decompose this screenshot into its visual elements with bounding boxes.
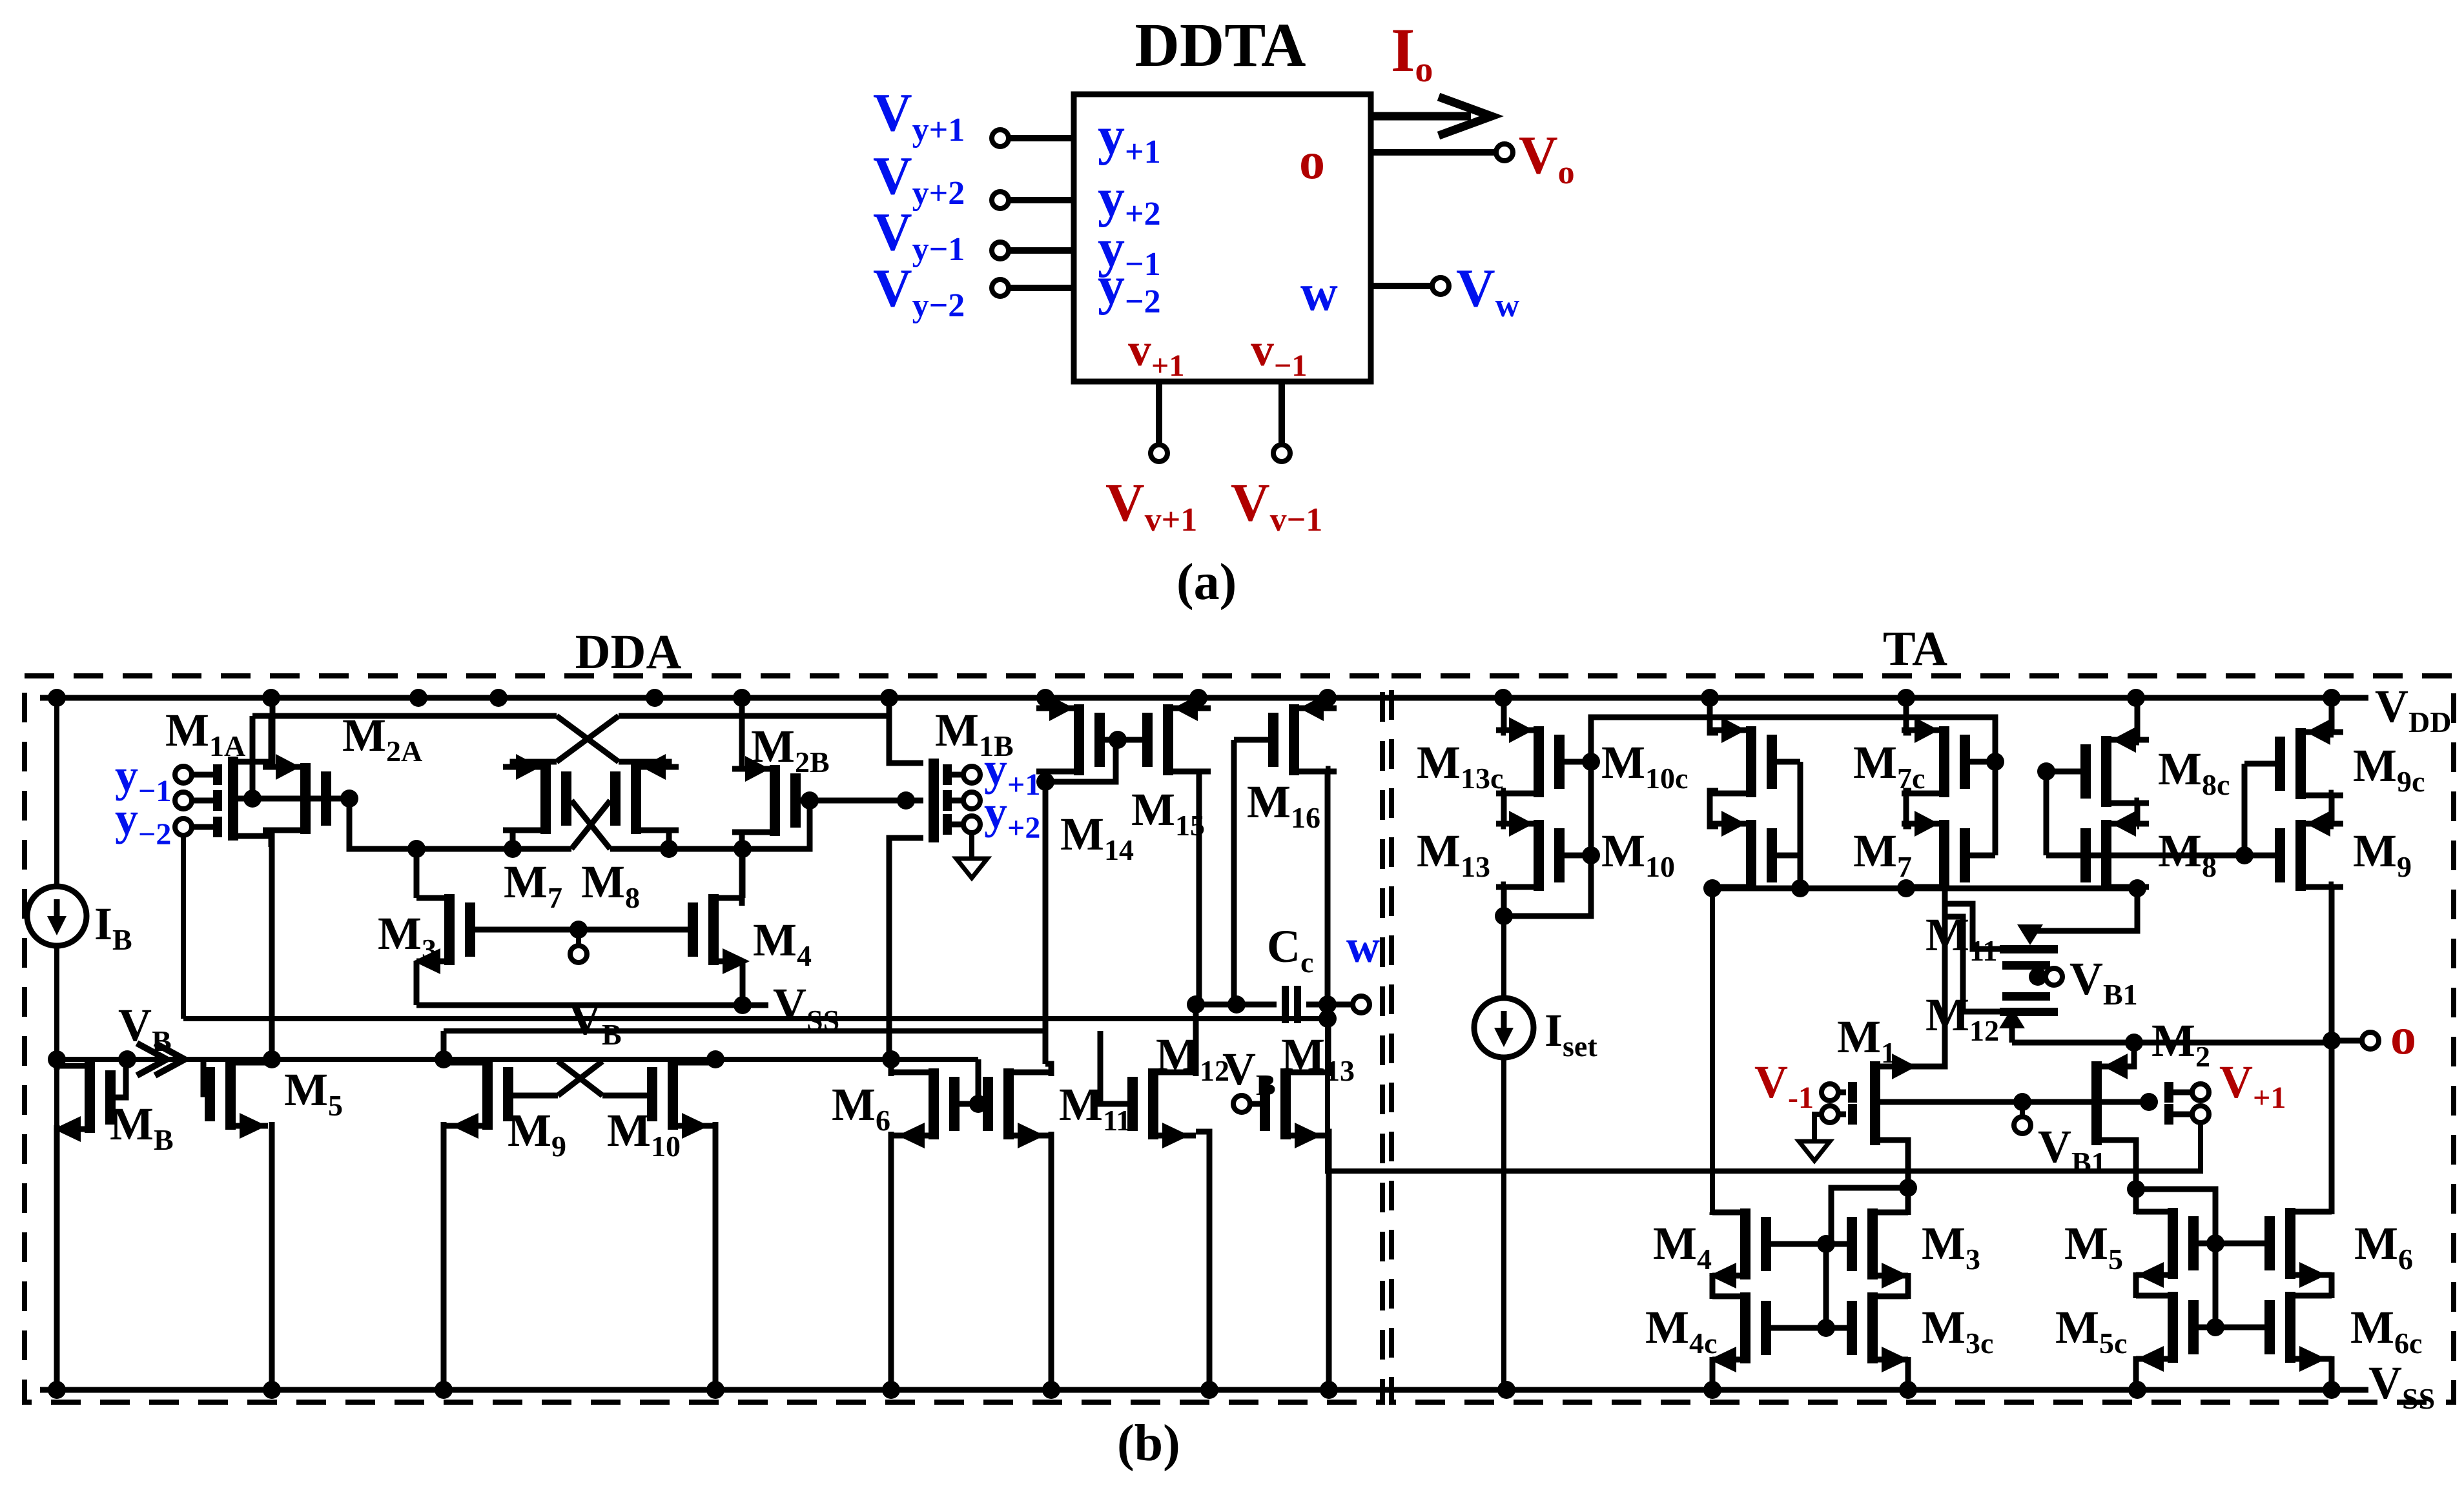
inner VSS rail xyxy=(416,1003,768,1008)
node w terminal xyxy=(1328,1002,1352,1008)
transistor M8 xyxy=(631,763,641,834)
transistor M12 of TA rotated xyxy=(2002,992,2050,1001)
transistor M9c xyxy=(2295,728,2306,799)
transistor M13 of DDA xyxy=(1280,1068,1291,1139)
ground at M1 lower gate xyxy=(1814,1114,1822,1123)
M1B bottom stub to M6 drain xyxy=(889,838,923,1061)
transistor M1A dual-gate input xyxy=(228,757,238,841)
M10 drain vertical to M4 drain xyxy=(1710,888,1715,1212)
transistor M8 of TA xyxy=(2101,820,2111,891)
transistor M1 of TA dual gate xyxy=(1870,1061,1880,1145)
transistor M12 xyxy=(1148,1068,1158,1139)
transistor M7 xyxy=(540,763,551,834)
transistor M5 xyxy=(225,1059,236,1130)
M14 drain vertical to M11 drain xyxy=(1043,782,1049,1064)
block DDTA xyxy=(1074,94,1371,382)
feedback wire from w to M1A third gate xyxy=(181,835,186,1019)
M13 gate bus diode tie xyxy=(1504,762,1591,916)
M1 bottom stub to tail xyxy=(1880,1140,1908,1188)
transistor M3 of TA xyxy=(1867,1208,1878,1279)
M11 M12 feed wires xyxy=(2030,888,2137,931)
transistor M11 of TA rotated xyxy=(2000,945,2058,953)
dashed box DDA xyxy=(25,676,1382,1402)
M3 diode tie to tail node xyxy=(1831,1188,1908,1244)
transistor M16 xyxy=(1289,704,1299,775)
current source I_B xyxy=(54,698,59,886)
transistor M5c xyxy=(2168,1292,2178,1363)
M8c gate vertical xyxy=(2044,771,2049,855)
transistor M10 xyxy=(668,1059,678,1130)
svg-text:w: w xyxy=(1346,921,1380,972)
svg-text:o: o xyxy=(1299,133,1325,190)
transistor MB xyxy=(85,1062,95,1133)
svg-text:o: o xyxy=(2390,1008,2416,1065)
transistor M2B xyxy=(770,765,780,836)
transistor M9 of TA xyxy=(2295,820,2306,891)
M1B top stub xyxy=(889,716,923,763)
M2 bottom stub to tail xyxy=(2102,1140,2136,1189)
output terminal V_o xyxy=(1373,149,1495,156)
M1A bottom stub xyxy=(238,836,271,847)
M1A drain tap wire xyxy=(238,796,349,802)
transistor M6c xyxy=(2285,1292,2295,1363)
second rail wire with cross xyxy=(252,713,557,719)
transistor M2 of TA dual gate xyxy=(2091,1061,2102,1145)
transistor M14 xyxy=(1074,704,1084,775)
input terminal V-1 xyxy=(1822,1084,1838,1101)
svg-text:w: w xyxy=(1300,265,1338,321)
cross-over X of M7 M8 gates xyxy=(571,800,610,849)
cross-over X top xyxy=(557,716,619,762)
M14 diode tie xyxy=(1045,740,1116,782)
second stage output bus xyxy=(444,1028,1045,1034)
current source I_set xyxy=(1501,916,1506,998)
M10 diode tie xyxy=(1798,762,1803,888)
input terminal V_y+1 xyxy=(992,130,1009,147)
svg-text:TA: TA xyxy=(1883,622,1947,676)
M7c gate wire xyxy=(1993,762,1998,855)
M3 M4 gate bus vertical xyxy=(1823,1244,1829,1328)
compensation capacitor Cc xyxy=(1196,1002,1277,1008)
ground under M1B xyxy=(969,833,974,841)
transistor M6 xyxy=(929,1068,939,1139)
M2A drain vertical to M5 drain xyxy=(269,830,275,1059)
bottom terminal V_v+1 xyxy=(1156,382,1162,444)
input terminal V_y&#8722;1 xyxy=(992,242,1009,259)
transistor M13c xyxy=(1534,726,1544,797)
transistor M10 of TA xyxy=(1746,820,1756,891)
input terminal V+1 xyxy=(2192,1084,2209,1101)
transistor M9 xyxy=(482,1059,493,1130)
feedback bus w-line xyxy=(183,1016,1328,1021)
first stage bias bus xyxy=(57,1057,978,1062)
terminal V_B1 of M11 M12 xyxy=(2029,968,2047,986)
M1A top stub xyxy=(238,716,271,762)
transistor M1B dual-gate input xyxy=(929,759,939,842)
output current arrow I_o xyxy=(1373,112,1471,121)
M16 gate wire down to Cc xyxy=(1231,740,1237,1004)
node line A xyxy=(349,799,571,849)
input terminals y-1 y-2 of M1A xyxy=(175,766,192,783)
M5 M6 gate bus vertical xyxy=(2213,1243,2219,1327)
VSS rail xyxy=(40,1387,2368,1393)
bottom terminal V_v-1 xyxy=(1278,382,1285,444)
M1 M2 mid line to V_B1 xyxy=(1880,1099,2149,1105)
second stage node line xyxy=(1711,886,2137,892)
M5 diode tie to tail node xyxy=(2136,1189,2215,1243)
transistor M8c xyxy=(2101,736,2111,807)
node line B xyxy=(610,800,810,849)
transistor M7c xyxy=(1939,726,1949,797)
svg-text:(a): (a) xyxy=(1176,554,1237,611)
dashed box TA xyxy=(1391,676,2454,1402)
output terminal o xyxy=(2332,1038,2361,1044)
transistor M13 of TA xyxy=(1534,820,1544,891)
w wire down and right to M2 gate of TA xyxy=(1328,1004,2201,1171)
input terminal V_y+2 xyxy=(992,192,1009,209)
transistor M2A xyxy=(300,763,311,834)
cross-over X of M9 M10 gates xyxy=(558,1061,602,1096)
VDD rail xyxy=(40,695,2368,701)
terminal V_B of M13 xyxy=(1233,1096,1250,1112)
svg-text:DDTA: DDTA xyxy=(1135,10,1306,79)
transistor M4c xyxy=(1740,1292,1750,1363)
svg-text:DDA: DDA xyxy=(575,625,682,679)
output terminal V_w xyxy=(1371,283,1432,289)
M1 top stub to cascode node xyxy=(1880,888,1945,1066)
transistor M3 xyxy=(444,894,455,965)
transistor M4 of TA xyxy=(1740,1208,1750,1279)
TA bias rail wire xyxy=(1591,717,1995,762)
M6 M11 gate tie vertical xyxy=(976,1059,981,1104)
transistor M5 of TA xyxy=(2168,1208,2178,1279)
svg-text:(b): (b) xyxy=(1117,1415,1180,1472)
transistor M11 xyxy=(1003,1068,1014,1139)
transistor M6 of TA xyxy=(2285,1208,2295,1279)
transistor M3c xyxy=(1867,1292,1878,1363)
input terminal V_y&#8722;2 xyxy=(992,280,1009,296)
transistor M10c xyxy=(1746,726,1756,797)
transistor M15 xyxy=(1163,704,1173,775)
transistor M4 xyxy=(708,894,719,965)
transistor M7 of TA xyxy=(1939,820,1949,891)
M1B drain tap xyxy=(810,798,923,804)
M2 top stub to output line xyxy=(2102,1043,2134,1066)
cascode bias bus xyxy=(2046,853,2244,859)
second rail to VDD stub xyxy=(887,698,892,716)
output o line xyxy=(2012,1040,2332,1046)
M9 M9c gate vertical xyxy=(2242,764,2248,855)
terminal V_B mid xyxy=(570,921,588,939)
